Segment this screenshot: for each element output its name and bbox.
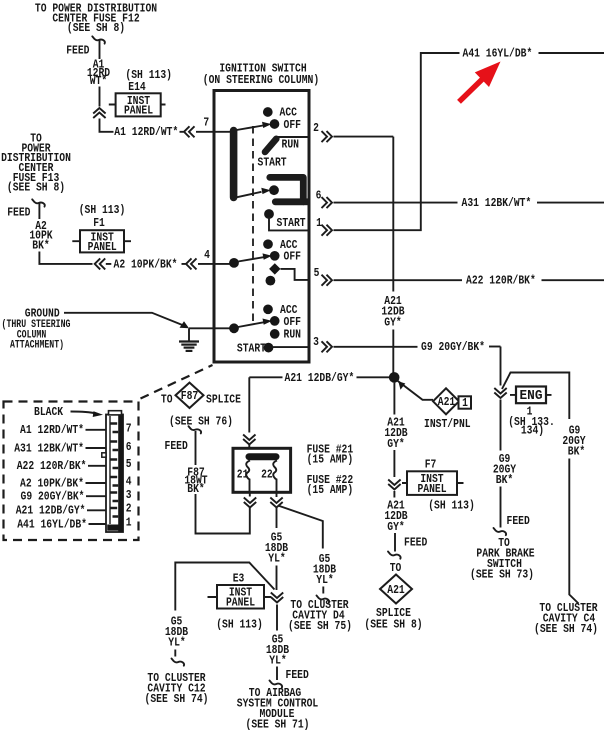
svg-text:A21: A21 bbox=[438, 395, 456, 409]
wire G9 20GY/BK* left segment bbox=[334, 346, 418, 348]
junction node pin4 wire bbox=[229, 258, 239, 268]
wire A21 12DB/GY* horizontal left segment bbox=[249, 376, 282, 378]
svg-text:6: 6 bbox=[126, 440, 132, 454]
junction node ground wire bbox=[229, 323, 239, 333]
wire G9 below chevrons bbox=[500, 400, 502, 451]
contact RUN bar (section 1) bbox=[265, 139, 276, 152]
label A2 10PK BK* bbox=[29, 219, 53, 253]
wire G9 right branch down bbox=[569, 459, 578, 604]
svg-text:YL*: YL* bbox=[316, 573, 334, 587]
wire F87 lower to fuse 21 bbox=[196, 494, 250, 534]
svg-text:G9 20GY/BK*: G9 20GY/BK* bbox=[21, 490, 85, 504]
connector F7 box INST PANEL bbox=[402, 471, 464, 496]
label GROUND (THRU STEERING COLUMN ATTACHMENT) bbox=[2, 307, 71, 352]
svg-text:PANEL: PANEL bbox=[88, 240, 117, 254]
svg-text:ATTACHMENT): ATTACHMENT) bbox=[10, 339, 64, 351]
wire to pin 3 bbox=[86, 495, 106, 497]
svg-text:5: 5 bbox=[314, 266, 320, 280]
svg-text:OFF: OFF bbox=[284, 250, 302, 264]
wiper arm to OFF (section 3) bbox=[238, 257, 264, 261]
wire G9 corner down bbox=[500, 347, 502, 386]
svg-text:BK*: BK* bbox=[496, 473, 514, 487]
wiper arm to contact (section 2) bbox=[237, 192, 262, 198]
svg-text:OFF: OFF bbox=[284, 118, 302, 132]
pointer arrowhead (BLACK) bbox=[93, 411, 103, 417]
wiper arm arrowhead (section 1) bbox=[262, 122, 272, 128]
wire A2 vertical to corner bbox=[39, 252, 92, 264]
svg-text:RUN: RUN bbox=[282, 138, 300, 152]
wire A1 vertical to corner bbox=[100, 119, 114, 132]
wire pin 2 to corner bbox=[334, 136, 394, 138]
splice symbol A21 diamond bbox=[433, 388, 459, 414]
feed end squiggle (D4) bbox=[317, 596, 330, 603]
label wire F87 18WT BK* bbox=[184, 465, 208, 496]
svg-text:FEED: FEED bbox=[404, 536, 427, 550]
svg-text:A1 12RD/WT*: A1 12RD/WT* bbox=[114, 125, 178, 139]
wire A41 16YL/DB* right segment bbox=[539, 52, 604, 54]
svg-text:(SEE SH 8): (SEE SH 8) bbox=[364, 617, 422, 631]
label wire G9 20GY BK* (left) bbox=[493, 452, 517, 487]
svg-text:2: 2 bbox=[313, 121, 319, 135]
wire A2 vertical feed bbox=[38, 203, 40, 220]
feed hook F12 bbox=[92, 36, 105, 43]
svg-text:GY*: GY* bbox=[384, 315, 402, 329]
svg-text:(SEE SH 76): (SEE SH 76) bbox=[169, 415, 233, 429]
feed end squiggle (airbag) bbox=[270, 681, 283, 688]
wiper arm to OFF (section 1) bbox=[237, 126, 264, 131]
svg-text:A31 12BK/WT*: A31 12BK/WT* bbox=[14, 441, 84, 455]
svg-text:A31 12BK/WT*: A31 12BK/WT* bbox=[462, 196, 532, 210]
label wire G5 18DB YL* (airbag) bbox=[266, 632, 290, 667]
fuse element 22 curve bbox=[273, 461, 277, 493]
svg-text:(SEE SH 74): (SEE SH 74) bbox=[534, 622, 598, 636]
wire G5 center (mid) bbox=[276, 566, 278, 591]
wire F87 18WT BK* upper bbox=[195, 431, 197, 465]
label A1 12RD WT* bbox=[87, 58, 110, 88]
contact START (section 4) bbox=[264, 343, 274, 353]
wire A21 into fusebox (vertical) bbox=[248, 377, 250, 432]
svg-text:134): 134) bbox=[521, 423, 544, 437]
ground symbol bbox=[179, 328, 199, 351]
svg-text:PANEL: PANEL bbox=[417, 482, 446, 496]
svg-text:4: 4 bbox=[126, 474, 132, 488]
connector chevrons fuse22 lower bbox=[270, 498, 282, 508]
label: TO POWER DISTRIBUTION CENTER FUSE F12 bbox=[35, 2, 157, 36]
svg-text:F87: F87 bbox=[181, 389, 199, 403]
wire A22 120R/BK* right segment bbox=[542, 279, 604, 281]
svg-text:FEED: FEED bbox=[165, 439, 188, 453]
svg-text:3: 3 bbox=[313, 335, 319, 349]
label TO CLUSTER CAVITY C12 bbox=[145, 671, 209, 706]
wire A22 120R/BK* left segment bbox=[334, 279, 463, 281]
wire to pin 1 bbox=[89, 523, 107, 525]
svg-text:(ON STEERING COLUMN): (ON STEERING COLUMN) bbox=[203, 73, 319, 87]
svg-text:1: 1 bbox=[316, 216, 322, 230]
svg-text:BLACK: BLACK bbox=[34, 405, 64, 419]
dashed leader to switch bbox=[141, 365, 213, 399]
svg-text:5: 5 bbox=[126, 457, 132, 471]
svg-text:1: 1 bbox=[462, 396, 468, 410]
svg-text:(SEE SH 71): (SEE SH 71) bbox=[246, 717, 310, 731]
connector F7 chevrons bbox=[388, 480, 400, 490]
contact dot (section 2) bbox=[269, 185, 279, 195]
wire into fusebox top bbox=[248, 445, 250, 449]
svg-text:YL*: YL* bbox=[268, 551, 286, 565]
label 1 (SH 133. 134) bbox=[508, 405, 555, 438]
connector chevrons fusebox input bbox=[243, 435, 255, 445]
wire A21 riser from pin 2 (lower) bbox=[392, 330, 394, 374]
svg-text:YL*: YL* bbox=[168, 635, 186, 649]
connector chevrons on A2 wire (pair 1) bbox=[95, 258, 112, 269]
wire A1 into pin 7 bbox=[196, 131, 232, 133]
wire diagonal to splice A21 bbox=[398, 381, 434, 400]
svg-text:A22 120R/BK*: A22 120R/BK* bbox=[466, 274, 536, 288]
label TO PARK BRAKE SWITCH bbox=[470, 536, 535, 582]
contact diamond (section 3) bbox=[269, 263, 280, 274]
connector F1 box INST PANEL bbox=[72, 230, 131, 254]
svg-text:2: 2 bbox=[126, 501, 132, 515]
branch diagonal to cluster D4 bbox=[278, 506, 323, 549]
svg-text:BK*: BK* bbox=[187, 482, 205, 496]
wire stub above D4 end bbox=[322, 587, 324, 594]
svg-text:TO: TO bbox=[161, 393, 173, 407]
connector chevrons fuse21 lower bbox=[244, 498, 256, 508]
svg-text:1: 1 bbox=[126, 515, 132, 529]
label FUSE #22 (15 AMP) bbox=[307, 473, 354, 497]
svg-text:A2 10PK/BK*: A2 10PK/BK* bbox=[20, 476, 84, 490]
switch internal dashed divider bbox=[252, 126, 254, 322]
connector E14 inline chevrons bbox=[93, 108, 105, 118]
contact RUN (section 4) bbox=[270, 329, 280, 339]
feed hook F13 bbox=[32, 199, 45, 206]
svg-text:OFF: OFF bbox=[284, 315, 302, 329]
fusebox F=fuse block bbox=[233, 448, 291, 492]
wire A21 riser from pin 2 (upper) bbox=[392, 137, 394, 292]
svg-text:GY*: GY* bbox=[387, 437, 405, 451]
splice symbol F87 diamond bbox=[176, 383, 204, 408]
wire A21 to feed end bbox=[394, 533, 396, 552]
label wire G5 18DB YL* (C12) bbox=[165, 614, 189, 649]
wire G9 to feed end bbox=[500, 487, 502, 528]
arrowhead toward junction bbox=[398, 381, 405, 390]
wire A1 12RD/WT* vertical feed bbox=[99, 39, 101, 59]
wire fuse22 stub below box bbox=[276, 492, 278, 497]
wiper arm to OFF (section 4) bbox=[238, 322, 264, 327]
wire START to pin 3 bbox=[272, 346, 309, 348]
label wire A21 12DB GY* (lower) bbox=[384, 499, 408, 534]
wire A21 12DB/GY* horizontal right segment bbox=[357, 376, 391, 378]
pointer arrowhead bbox=[180, 321, 190, 328]
wire A2 into pin 4 bbox=[198, 263, 233, 265]
label IGNITION SWITCH (ON STEERING COLUMN) bbox=[203, 62, 319, 87]
svg-text:ENG: ENG bbox=[520, 388, 543, 404]
label wire A21 12DB GY* (below junction) bbox=[384, 416, 408, 451]
wire to pin 6 bbox=[86, 447, 107, 449]
wire U-shape to pin 6 bbox=[303, 198, 309, 205]
svg-text:(SEE SH 74): (SEE SH 74) bbox=[145, 692, 209, 706]
contact bus U-shape (section 2) bbox=[270, 177, 304, 201]
wire ground to switch bbox=[189, 327, 233, 329]
svg-text:TO: TO bbox=[390, 561, 402, 575]
wire A21 below F7 bbox=[393, 491, 395, 498]
switch wiper bar bbox=[230, 131, 238, 198]
svg-text:(SEE SH 8): (SEE SH 8) bbox=[67, 21, 125, 35]
wire G5 to feed end (airbag) bbox=[276, 667, 278, 681]
feed end squiggle (G9) bbox=[494, 528, 507, 535]
pin 6 connector chevrons bbox=[322, 197, 333, 208]
svg-text:(15 AMP): (15 AMP) bbox=[307, 483, 354, 497]
svg-text:FEED: FEED bbox=[286, 668, 309, 682]
svg-text:(SEE SH 8): (SEE SH 8) bbox=[7, 181, 65, 195]
svg-text:A22 120R/BK*: A22 120R/BK* bbox=[17, 459, 87, 473]
label wire G9 20GY BK* (right) bbox=[562, 423, 586, 458]
svg-text:BK*: BK* bbox=[32, 238, 50, 252]
splice A21 pin box 1 bbox=[459, 396, 472, 410]
svg-text:(SH 113): (SH 113) bbox=[428, 498, 475, 512]
feed hook F87 bbox=[189, 426, 202, 433]
svg-text:A21 12DB/GY*: A21 12DB/GY* bbox=[16, 504, 86, 518]
svg-text:A41 16YL/DB*: A41 16YL/DB* bbox=[17, 517, 87, 531]
svg-text:4: 4 bbox=[204, 248, 210, 262]
svg-text:A1 12RD/WT*: A1 12RD/WT* bbox=[20, 423, 84, 437]
wire to pin 4 bbox=[86, 482, 107, 484]
contact ACC (section 1) bbox=[263, 107, 273, 117]
connector chevrons on G9 bbox=[494, 388, 506, 398]
svg-text:YL*: YL* bbox=[269, 653, 287, 667]
svg-text:(15 AMP): (15 AMP) bbox=[307, 452, 354, 466]
connector ENG box bbox=[510, 387, 552, 405]
label TO CLUSTER CAVITY D4 bbox=[288, 598, 352, 633]
svg-text:SPLICE: SPLICE bbox=[206, 393, 241, 407]
label SPLICE (SEE SH 8) bbox=[364, 606, 422, 632]
svg-text:A41 16YL/DB*: A41 16YL/DB* bbox=[463, 46, 533, 60]
connector chevrons on A2 wire (pair 2) bbox=[182, 258, 197, 269]
wire A31 12BK/WT* left segment bbox=[334, 202, 458, 204]
svg-text:E14: E14 bbox=[128, 80, 146, 94]
contact dot lower (section 3) bbox=[266, 276, 276, 286]
svg-text:G9 20GY/BK*: G9 20GY/BK* bbox=[421, 340, 485, 354]
label TO AIRBAG SYSTEM CONTROL MODULE bbox=[237, 686, 319, 732]
contact START (section 2) bbox=[264, 209, 274, 219]
svg-text:FEED: FEED bbox=[7, 206, 30, 220]
svg-text:7: 7 bbox=[126, 422, 132, 436]
svg-text:A21: A21 bbox=[387, 583, 405, 597]
svg-text:GY*: GY* bbox=[387, 520, 405, 534]
wire diamond to pin 5 bbox=[281, 269, 310, 280]
svg-text:START: START bbox=[277, 216, 307, 230]
feed end squiggle (C12) bbox=[172, 659, 185, 666]
wire to pin 5 bbox=[88, 465, 106, 467]
label: TO POWER DISTRIBUTION CENTER FUSE F13 bbox=[1, 132, 71, 195]
svg-text:3: 3 bbox=[126, 488, 132, 502]
wire RUN to pin 2 bbox=[276, 136, 309, 138]
svg-text:F1: F1 bbox=[93, 216, 105, 230]
svg-text:FEED: FEED bbox=[507, 514, 530, 528]
junction node A21 bbox=[389, 372, 400, 383]
pin 2 connector chevrons bbox=[322, 131, 333, 142]
wiper arm arrowhead (section 3) bbox=[263, 253, 273, 259]
feed end squiggle (A21) bbox=[388, 552, 401, 559]
connector E14 box INST PANEL bbox=[109, 93, 166, 117]
svg-text:E3: E3 bbox=[233, 571, 245, 585]
svg-text:WT*: WT* bbox=[90, 74, 108, 88]
wire stub above C12 end bbox=[174, 650, 176, 657]
wire A21 to F7 bbox=[393, 450, 395, 477]
contact ACC (section 4) bbox=[263, 304, 273, 314]
label wire A21 12DB GY* (riser) bbox=[381, 294, 405, 330]
label wire G5 18DB YL* (D4 branch) bbox=[313, 552, 337, 587]
wire G9 20GY/BK* to corner bbox=[489, 346, 501, 348]
wire A21 below junction bbox=[393, 383, 395, 415]
svg-text:START: START bbox=[258, 155, 288, 169]
label wire G5 18DB YL* (center) bbox=[265, 530, 289, 565]
wire fuse21 stub below box bbox=[249, 492, 251, 496]
svg-text:BK*: BK* bbox=[568, 444, 586, 458]
svg-text:(SEE SH 73): (SEE SH 73) bbox=[470, 568, 534, 582]
wire A1 vertical below label bbox=[99, 87, 101, 107]
branch to E3 and cluster C12 bbox=[175, 563, 274, 611]
contact OFF (section 1) bbox=[270, 119, 280, 129]
svg-text:PANEL: PANEL bbox=[124, 104, 153, 118]
connector C1 body bbox=[102, 411, 123, 532]
contact OFF (section 3) bbox=[270, 251, 280, 261]
pin 1 connector chevrons bbox=[322, 225, 333, 236]
contact ACC (section 3) bbox=[263, 239, 273, 249]
svg-text:(SEE SH 75): (SEE SH 75) bbox=[288, 619, 352, 633]
svg-text:7: 7 bbox=[203, 115, 209, 129]
connector detail dashed box bbox=[4, 402, 139, 541]
connector chevrons E3 bbox=[271, 593, 283, 603]
svg-text:PANEL: PANEL bbox=[226, 596, 255, 610]
svg-text:22: 22 bbox=[261, 467, 273, 481]
svg-text:(SH 113): (SH 113) bbox=[79, 203, 126, 217]
wire pin 1 to A41 riser bbox=[334, 53, 460, 230]
connector E3 box INST PANEL bbox=[208, 585, 272, 610]
splice symbol A21 (bottom) bbox=[380, 575, 412, 604]
svg-text:FEED: FEED bbox=[66, 43, 89, 57]
pointer line from GROUND label bbox=[64, 313, 186, 326]
ignition switch S1 box bbox=[214, 91, 309, 363]
svg-text:A2 10PK/BK*: A2 10PK/BK* bbox=[114, 257, 178, 271]
wiper arm arrowhead (section 4) bbox=[263, 319, 273, 325]
wire G5 fuse22 down (upper) bbox=[276, 508, 278, 529]
label FUSE #21 (15 AMP) bbox=[307, 442, 354, 466]
wiper arm arrowhead (section 2) bbox=[261, 188, 271, 194]
pin 3 connector chevrons bbox=[322, 341, 333, 352]
wire G5 center (lower) bbox=[276, 605, 278, 631]
wire to pin 7 bbox=[86, 429, 107, 431]
contact OFF (section 4) bbox=[270, 316, 280, 326]
red arrow pointer bbox=[459, 62, 501, 102]
connector chevrons on A1 wire bbox=[180, 126, 195, 137]
pointer BLACK to connector bbox=[71, 412, 97, 414]
svg-text:(SH 113): (SH 113) bbox=[216, 617, 263, 631]
svg-text:F7: F7 bbox=[425, 457, 437, 471]
svg-text:6: 6 bbox=[316, 189, 322, 203]
wire to pin 2 bbox=[87, 509, 106, 511]
svg-text:INST/PNL: INST/PNL bbox=[424, 417, 471, 431]
pin 5 connector chevrons bbox=[322, 275, 333, 286]
svg-text:RUN: RUN bbox=[284, 328, 302, 342]
label TO CLUSTER CAVITY C4 bbox=[534, 601, 598, 636]
branch diagonal to ENG net bbox=[502, 373, 569, 420]
fuse element 21 curve bbox=[246, 461, 250, 493]
wire A31 12BK/WT* right segment bbox=[537, 202, 604, 204]
svg-text:START: START bbox=[237, 341, 267, 355]
svg-text:A21 12DB/GY*: A21 12DB/GY* bbox=[285, 371, 355, 385]
wire START to pin 1 bbox=[269, 217, 309, 230]
